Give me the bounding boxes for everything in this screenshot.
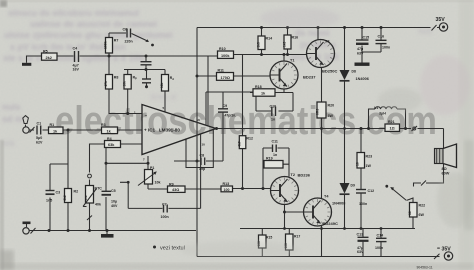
svg-text:170Ω: 170Ω [221,76,230,80]
svg-text:T1: T1 [290,58,294,62]
svg-text:R14: R14 [266,36,273,40]
svg-text:1n: 1n [273,153,277,157]
svg-text:R9: R9 [169,182,174,186]
svg-text:D8: D8 [352,69,356,73]
svg-text:R5: R5 [43,50,48,54]
svg-text:P1: P1 [150,166,154,170]
svg-text:R19: R19 [266,157,273,161]
svg-text:R21: R21 [388,120,395,124]
svg-text:C10: C10 [270,105,277,109]
svg-text:1N4008: 1N4008 [332,201,345,205]
svg-text:100n: 100n [382,45,390,49]
svg-text:10: 10 [202,142,206,146]
svg-text:R16: R16 [292,35,299,39]
svg-text:47k: 47k [104,81,108,87]
svg-text:100k: 100k [103,41,107,49]
svg-text:0R3: 0R3 [316,109,320,115]
svg-text:R2: R2 [74,190,79,194]
svg-text:6W: 6W [419,213,425,217]
svg-text:1Ω: 1Ω [390,127,395,131]
svg-text:R15: R15 [266,235,272,239]
svg-text:oinscu ds eilcsbsru mleinamul: oinscu ds eilcsbsru mleinamul [8,8,139,18]
svg-text:C4: C4 [73,47,78,51]
svg-text:47μ: 47μ [357,47,363,51]
svg-text:40V: 40V [111,204,118,208]
svg-text:sle s la s o visieis sgdbn: sle s la s o visieis sgdbnl a d 10b [3,53,145,63]
svg-text:ualinse de aiusciot de camne: ualinse de aiusciot de camnei [30,19,157,29]
svg-text:BD237: BD237 [303,74,316,79]
svg-text:R13: R13 [223,182,230,186]
svg-text:1n5: 1n5 [46,198,52,202]
svg-text:NTC: NTC [95,186,103,190]
svg-text:R18: R18 [255,85,262,89]
svg-text:C6: C6 [123,28,128,32]
svg-text:C7: C7 [162,202,167,206]
svg-text:100n: 100n [375,246,383,250]
svg-text:16: 16 [197,118,201,122]
svg-text:C11: C11 [272,139,278,143]
svg-text:35V: 35V [442,246,452,252]
svg-text:C5: C5 [111,189,116,193]
svg-text:43Ω: 43Ω [172,188,179,192]
svg-text:R7: R7 [114,39,119,43]
svg-text:10: 10 [355,162,359,166]
svg-text:R23: R23 [366,154,373,158]
svg-text:3W: 3W [328,114,334,118]
svg-text:1W: 1W [366,164,372,168]
svg-text:R3: R3 [101,123,106,127]
svg-text:−: − [145,113,148,118]
svg-text:C9: C9 [223,104,228,108]
svg-text:35V: 35V [436,17,446,23]
svg-text:63V: 63V [357,52,364,56]
svg-text:ds numi: ds numi [295,28,330,38]
svg-text:1n: 1n [271,118,275,122]
svg-text:220n: 220n [125,40,133,44]
svg-text:40k: 40k [95,203,101,207]
svg-text:T2: T2 [291,173,295,177]
svg-text:8Ω: 8Ω [442,167,447,171]
svg-text:C14: C14 [377,234,384,238]
svg-text:C13: C13 [357,233,364,237]
svg-text:47μ: 47μ [357,246,363,250]
svg-text:1N4006: 1N4006 [356,77,369,81]
svg-text:D9: D9 [351,184,355,188]
svg-text:C16: C16 [378,34,385,38]
svg-text:nuls: nuls [2,102,21,112]
svg-text:C12: C12 [368,189,375,193]
svg-text:sia: sia [2,138,16,148]
svg-text:5μ0: 5μ0 [36,136,42,140]
svg-text:C3: C3 [56,191,61,195]
svg-text:R8: R8 [114,76,119,80]
svg-text:R22: R22 [419,203,426,207]
svg-text:16V: 16V [73,67,80,71]
svg-text:R17: R17 [294,234,300,238]
svg-text:40k: 40k [84,195,88,200]
svg-text:10k: 10k [155,181,161,185]
svg-text:100: 100 [224,188,230,192]
svg-text:R4: R4 [107,137,112,141]
svg-text:C1: C1 [37,122,42,126]
svg-text:10μ: 10μ [111,199,117,203]
svg-text:10k: 10k [122,81,126,87]
svg-text:R20: R20 [328,104,335,108]
svg-text:sd m: sd m [2,114,23,124]
svg-text:63k: 63k [108,143,115,147]
svg-text:R12: R12 [246,136,253,140]
svg-text:100n: 100n [161,215,169,219]
svg-text:8k2: 8k2 [63,195,67,201]
svg-text:63V: 63V [357,250,364,254]
svg-text:R10: R10 [219,47,226,51]
svg-text:10k: 10k [160,82,164,88]
svg-text:100k: 100k [221,54,230,58]
svg-text:4k7: 4k7 [238,141,242,147]
svg-text:39p: 39p [199,167,206,171]
svg-text:1k5: 1k5 [282,41,286,47]
svg-text:47p/1n.: 47p/1n. [225,114,237,118]
svg-text:62V: 62V [36,140,43,144]
svg-text:BD236: BD236 [298,172,311,177]
svg-text:L1: L1 [374,106,378,110]
svg-text:T3: T3 [325,39,329,43]
svg-text:BD250C: BD250C [322,68,337,73]
svg-text:R1: R1 [50,123,55,127]
svg-text:1k5: 1k5 [256,42,260,48]
svg-text:C15: C15 [363,36,370,40]
svg-text:2k2: 2k2 [46,56,52,60]
svg-text:C8: C8 [200,153,205,157]
svg-text:uloise zjoilncurlos ghu comu: uloise zjoilncurlos ghu comul genlumei [4,30,173,40]
svg-text:10: 10 [408,211,412,215]
svg-text:100n: 100n [359,202,367,206]
svg-text:+ IC1 LM391-80: + IC1 LM391-80 [144,128,180,133]
svg-text:3μH: 3μH [379,111,386,115]
svg-text:BD249C: BD249C [323,221,338,226]
svg-text:R11: R11 [218,69,224,73]
